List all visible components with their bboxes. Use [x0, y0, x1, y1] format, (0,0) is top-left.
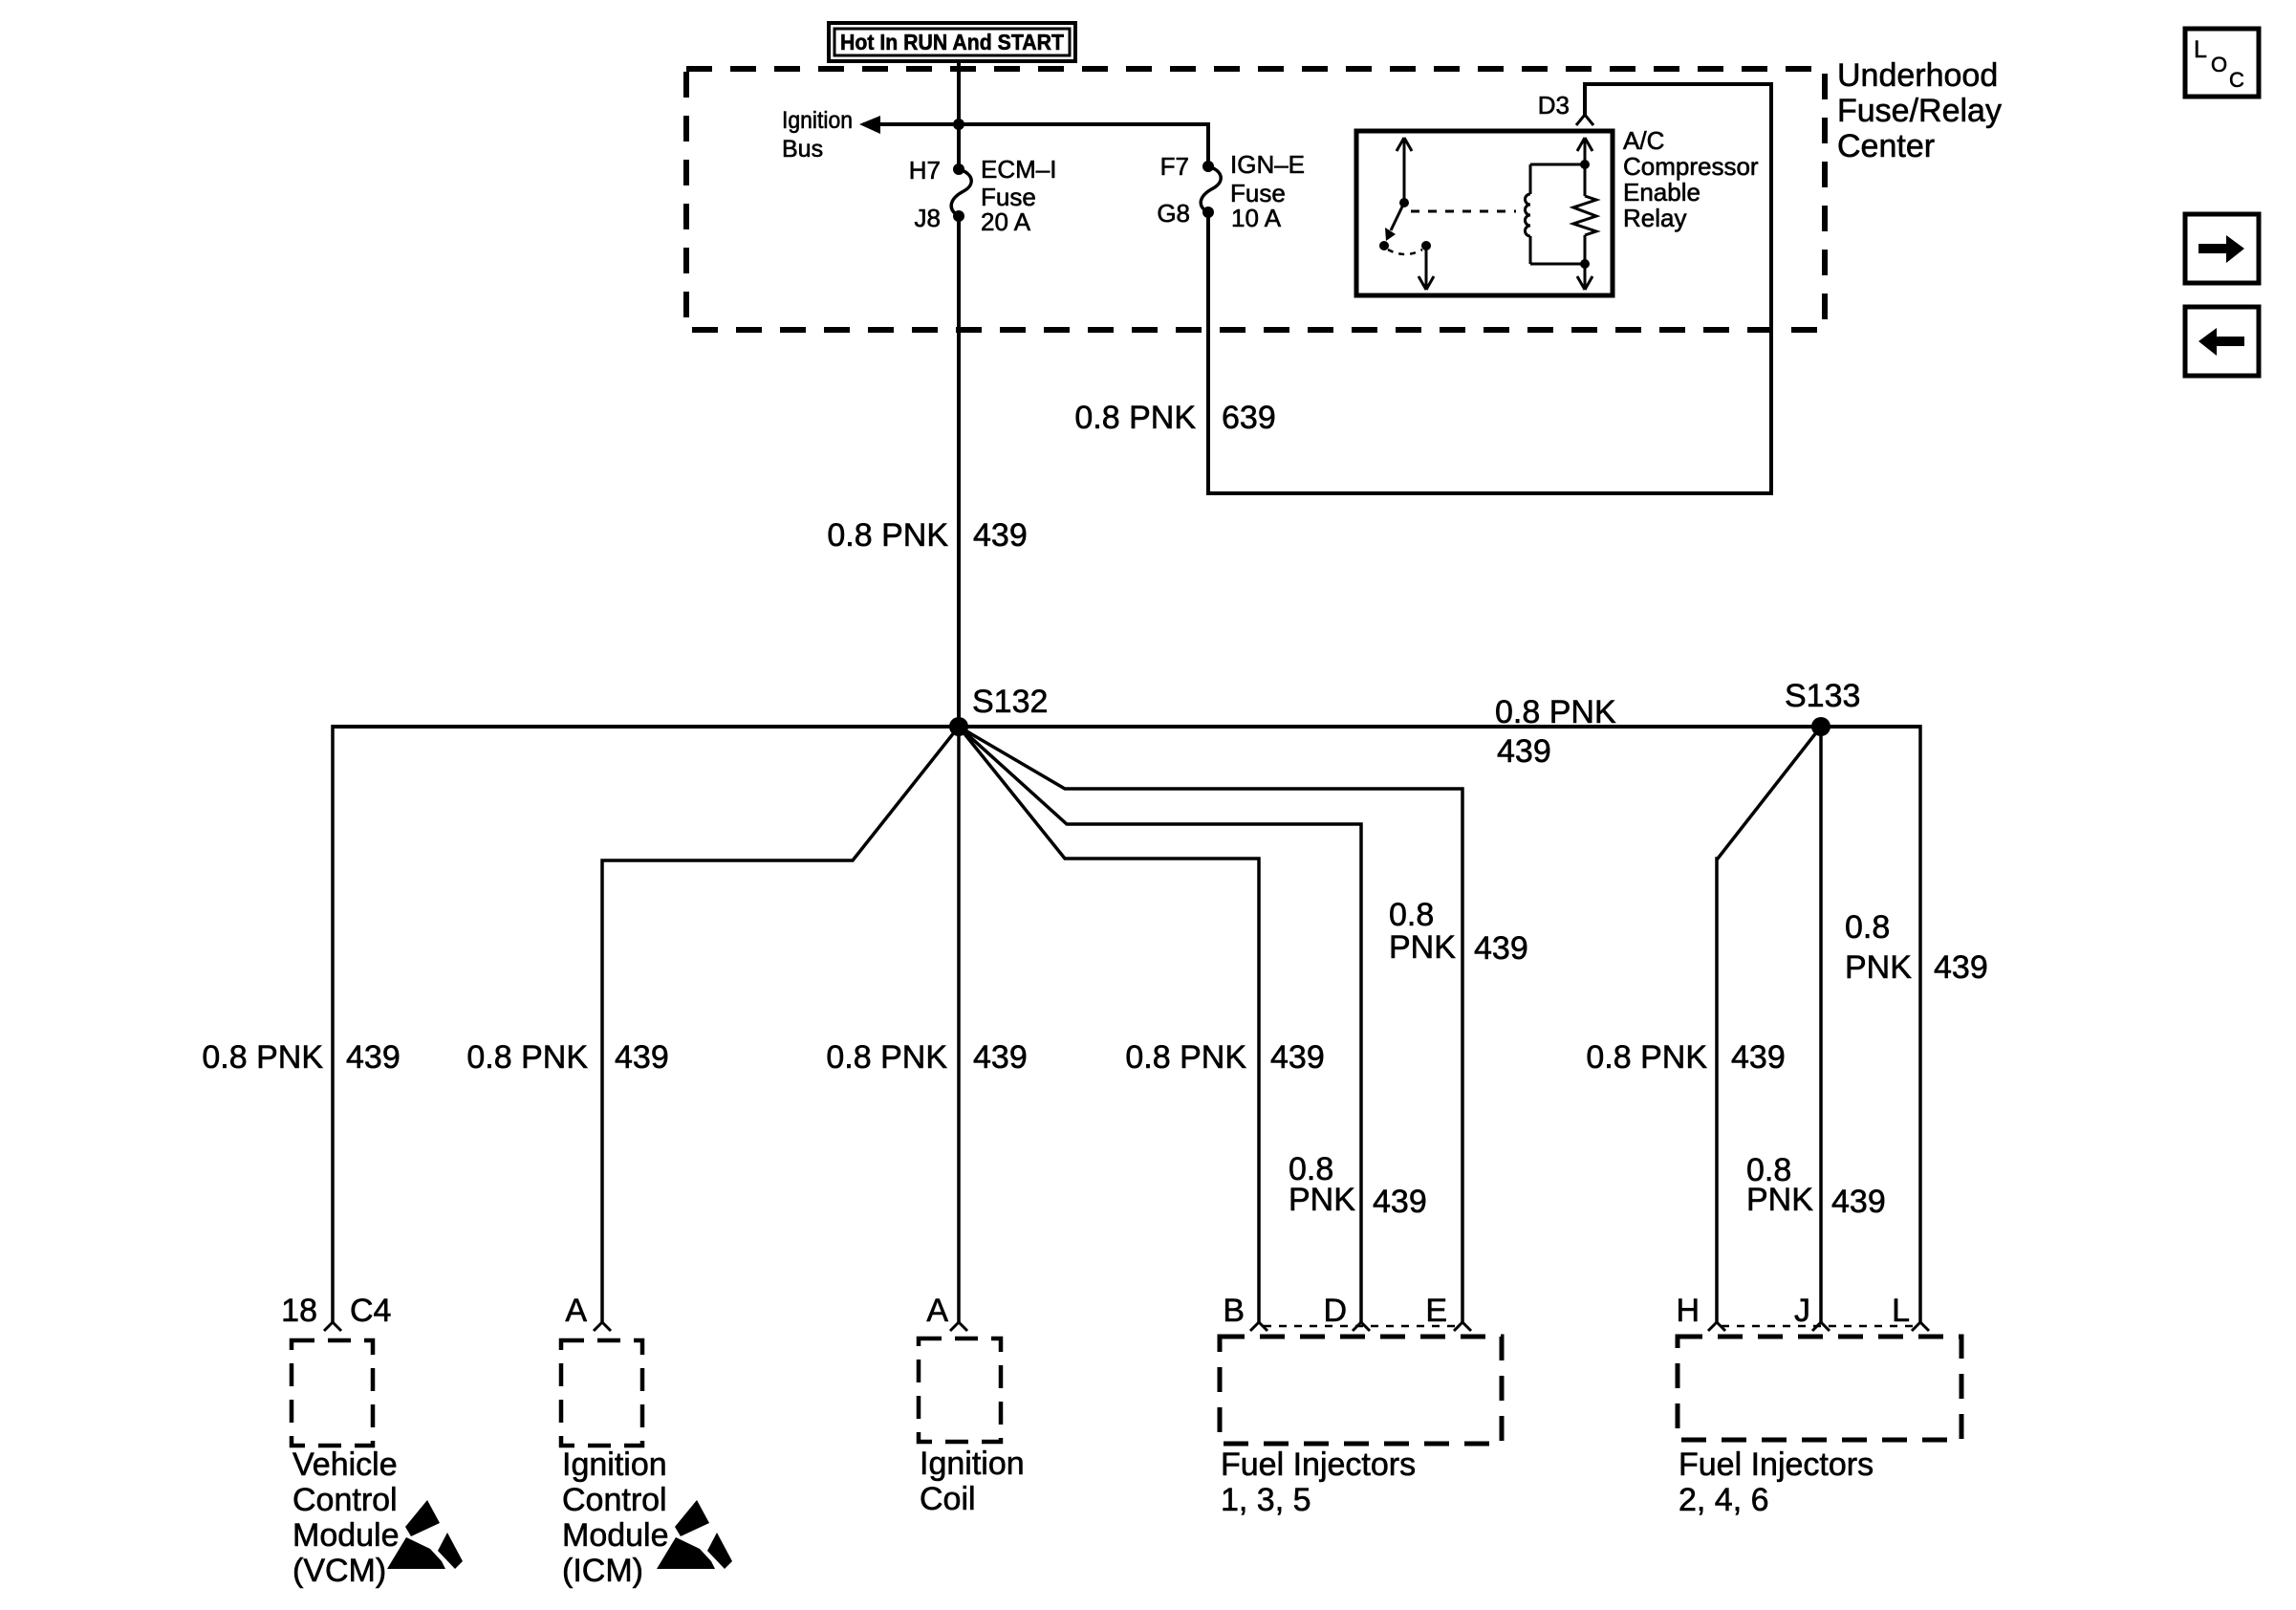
label 0.8 PNK 439 (injector B): [1125, 1039, 1324, 1076]
wire: hot feed from box down to ignition bus junction: [957, 61, 961, 169]
svg-text:F7: F7: [1160, 152, 1189, 181]
node S132 splice: [949, 717, 968, 736]
svg-text:Ignition: Ignition: [562, 1447, 667, 1483]
pin 18 C4 (VCM): [281, 1293, 391, 1329]
relay coil: [1526, 164, 1586, 264]
pin J8: [953, 210, 964, 222]
svg-text:S132: S132: [972, 684, 1048, 720]
svg-text:1, 3, 5: 1, 3, 5: [1221, 1482, 1311, 1518]
relay NO contact output arrow (down): [1419, 246, 1434, 290]
svg-text:E: E: [1425, 1293, 1447, 1329]
terminal chevron VCM: [324, 1322, 341, 1331]
svg-text:O: O: [2211, 53, 2227, 76]
svg-text:0.8: 0.8: [1389, 897, 1434, 933]
component box Fuel Injectors 1,3,5 dashed: [1220, 1337, 1502, 1444]
connector dashed link H-J-L: [1722, 1325, 1917, 1328]
svg-text:(VCM): (VCM): [292, 1553, 386, 1589]
label 0.8 PNK 439 (injector J): [1746, 1152, 1886, 1220]
svg-text:Control: Control: [562, 1482, 667, 1518]
label Ignition Coil: [920, 1446, 1025, 1517]
label 0.8 PNK 439 (coil): [826, 1039, 1027, 1076]
svg-text:0.8 PNK: 0.8 PNK: [1586, 1039, 1707, 1076]
Underhood Fuse/Relay Center dashed box: [686, 69, 1825, 330]
fuse ECM-I squiggle: [951, 169, 971, 216]
pin H7: [953, 163, 964, 175]
connector dashed link B-D-E: [1264, 1325, 1459, 1328]
svg-text:A/C: A/C: [1623, 126, 1664, 155]
wire: injector E branch from S132: [959, 727, 1462, 1322]
svg-text:Bus: Bus: [782, 136, 823, 163]
terminal chevron L: [1912, 1322, 1929, 1331]
ESD symbol (ICM): [657, 1500, 732, 1569]
svg-text:20 A: 20 A: [981, 207, 1031, 236]
svg-text:PNK: PNK: [1289, 1182, 1355, 1218]
svg-text:439: 439: [973, 517, 1028, 554]
svg-text:Ignition: Ignition: [920, 1446, 1025, 1482]
svg-text:0.8 PNK: 0.8 PNK: [826, 1039, 947, 1076]
svg-text:J8: J8: [915, 204, 941, 232]
svg-text:Ignition: Ignition: [782, 107, 853, 134]
label Vehicle Control Module (VCM): [292, 1447, 400, 1589]
wire: main bus from S132 left to VCM corner: [333, 725, 959, 729]
module box ignition coil dashed: [919, 1338, 1001, 1442]
power source box Hot In RUN And START: [829, 23, 1075, 61]
node S133 splice: [1811, 717, 1830, 736]
svg-text:439: 439: [1934, 949, 1988, 986]
svg-text:Fuel Injectors: Fuel Injectors: [1679, 1447, 1874, 1483]
terminal chevron E: [1454, 1322, 1471, 1331]
svg-text:L: L: [2194, 36, 2207, 63]
svg-text:H: H: [1676, 1293, 1700, 1329]
pin D3 connector chevron: [1538, 91, 1593, 125]
wire: injector D branch from S132: [959, 727, 1361, 1322]
svg-text:PNK: PNK: [1845, 949, 1912, 986]
label 0.8 PNK 439 (injector H): [1586, 1039, 1785, 1076]
legend left-arrow box: [2185, 307, 2259, 376]
svg-text:2, 4, 6: 2, 4, 6: [1679, 1482, 1769, 1518]
svg-text:439: 439: [1831, 1184, 1886, 1220]
svg-text:IGN–E: IGN–E: [1230, 150, 1305, 179]
svg-text:G8: G8: [1157, 199, 1190, 228]
terminal chevron J: [1812, 1322, 1830, 1331]
svg-text:439: 439: [973, 1039, 1028, 1076]
relay switch blade with arrowhead: [1385, 203, 1404, 241]
svg-text:S133: S133: [1785, 678, 1860, 714]
svg-text:D: D: [1323, 1293, 1347, 1329]
svg-text:439: 439: [1373, 1184, 1427, 1220]
label A/C Compressor Enable Relay: [1623, 126, 1759, 232]
svg-text:0.8 PNK: 0.8 PNK: [1495, 694, 1616, 730]
relay actuation dashed line: [1411, 210, 1516, 213]
svg-text:D3: D3: [1538, 91, 1570, 120]
svg-text:439: 439: [1497, 733, 1551, 770]
svg-text:H7: H7: [909, 156, 941, 185]
label Fuel Injectors 1, 3, 5: [1221, 1447, 1416, 1518]
label Fuel Injectors 2, 4, 6: [1679, 1447, 1874, 1518]
terminal chevron ICM: [594, 1322, 611, 1331]
svg-text:439: 439: [615, 1039, 669, 1076]
svg-text:Fuel Injectors: Fuel Injectors: [1221, 1447, 1416, 1483]
svg-text:10 A: 10 A: [1231, 204, 1282, 232]
svg-text:0.8 PNK: 0.8 PNK: [1074, 400, 1196, 436]
terminal chevron coil: [950, 1322, 967, 1331]
svg-text:Module: Module: [562, 1517, 669, 1554]
svg-text:Enable: Enable: [1623, 178, 1700, 207]
label 0.8 PNK 439 (injector L): [1845, 909, 1988, 986]
pin G8: [1202, 207, 1214, 218]
svg-text:439: 439: [1474, 930, 1528, 967]
svg-text:B: B: [1223, 1293, 1245, 1329]
svg-text:Center: Center: [1837, 128, 1935, 164]
node: relay coil top junction: [1580, 160, 1590, 169]
svg-text:Hot In RUN And START: Hot In RUN And START: [840, 30, 1064, 54]
svg-text:Vehicle: Vehicle: [292, 1447, 398, 1483]
svg-text:Compressor: Compressor: [1623, 152, 1759, 181]
svg-text:PNK: PNK: [1746, 1182, 1813, 1218]
wire: ignition coil drop from S132: [957, 727, 961, 1322]
wire: circuit 639 loop from G8 to relay D3: [1208, 84, 1771, 493]
ESD symbol (VCM): [387, 1500, 463, 1569]
relay box A/C Compressor Enable Relay: [1356, 131, 1613, 295]
svg-text:Coil: Coil: [920, 1481, 976, 1517]
label 0.8 PNK 439 (VCM): [202, 1039, 400, 1076]
wire: IGN-E branch down from ignition bus: [1206, 122, 1210, 166]
svg-text:J: J: [1794, 1293, 1810, 1329]
svg-text:0.8 PNK: 0.8 PNK: [1125, 1039, 1246, 1076]
label 0.8 PNK 439 (injector E): [1389, 897, 1528, 967]
wire: injector J drop from S133: [1819, 727, 1823, 1322]
wire: ignition bus horizontal: [863, 122, 1208, 126]
label 0.8 PNK 439 (bus to S133): [1495, 694, 1616, 770]
relay switch common arrow (up): [1397, 138, 1412, 203]
relay feed arrow (up) at D3 leg: [1577, 138, 1592, 196]
label 0.8 PNK 639: [1074, 400, 1275, 436]
wire: ICM branch from S132: [602, 727, 959, 1322]
svg-text:439: 439: [1270, 1039, 1325, 1076]
svg-text:C: C: [2229, 68, 2244, 92]
wire: circuit 439 main feed J8 down to S132: [957, 216, 961, 727]
svg-text:439: 439: [346, 1039, 401, 1076]
label 0.8 PNK 439 (ICM): [466, 1039, 668, 1076]
relay output arrow (down): [1577, 235, 1592, 290]
svg-text:0.8 PNK: 0.8 PNK: [827, 517, 948, 554]
terminal chevron H: [1708, 1322, 1725, 1331]
svg-text:0.8 PNK: 0.8 PNK: [466, 1039, 588, 1076]
svg-text:L: L: [1892, 1293, 1910, 1329]
fuse IGN-E squiggle: [1201, 166, 1221, 212]
relay dashed contact arc: [1388, 250, 1422, 254]
terminal chevron B: [1250, 1322, 1267, 1331]
module box ICM dashed: [561, 1340, 642, 1446]
svg-text:18: 18: [281, 1293, 317, 1329]
svg-text:ECM–I: ECM–I: [981, 155, 1056, 184]
label 0.8 PNK 439 (main feed): [827, 517, 1027, 554]
svg-text:0.8: 0.8: [1845, 909, 1890, 946]
svg-text:PNK: PNK: [1389, 929, 1456, 966]
label IGN-E Fuse 10 A: [1230, 150, 1305, 232]
terminal chevron D: [1353, 1322, 1370, 1331]
label Ignition Control Module (ICM): [562, 1447, 669, 1589]
node: relay coil bottom junction: [1580, 259, 1590, 269]
module box VCM dashed: [292, 1340, 373, 1446]
relay NO contact: [1421, 241, 1431, 250]
svg-text:C4: C4: [350, 1293, 391, 1329]
label 0.8 PNK 439 (injector D): [1289, 1151, 1427, 1220]
pin F7: [1202, 161, 1214, 172]
svg-text:639: 639: [1222, 400, 1276, 436]
legend LOC box: [2185, 29, 2259, 97]
svg-text:Underhood: Underhood: [1837, 57, 1998, 94]
svg-text:(ICM): (ICM): [562, 1553, 643, 1589]
node: ignition bus junction: [953, 119, 964, 130]
relay NC contact: [1379, 241, 1389, 250]
wire: injector B branch from S132: [959, 727, 1259, 1322]
svg-text:Relay: Relay: [1623, 204, 1686, 232]
relay switch pivot: [1399, 198, 1409, 207]
wire: main bus from S132 right to L corner: [959, 725, 1920, 729]
arrow to Ignition Bus: [859, 116, 880, 134]
svg-text:Fuse/Relay: Fuse/Relay: [1837, 93, 2002, 129]
svg-text:A: A: [926, 1293, 948, 1329]
wire: injector H branch from S133: [1717, 727, 1821, 1322]
label ECM-I Fuse 20 A: [981, 155, 1056, 236]
label Ignition Bus: [782, 107, 853, 163]
svg-text:Control: Control: [292, 1482, 398, 1518]
wire: VCM drop: [331, 725, 335, 1322]
svg-text:439: 439: [1731, 1039, 1786, 1076]
label Underhood Fuse/Relay Center: [1837, 57, 2002, 164]
svg-text:0.8 PNK: 0.8 PNK: [202, 1039, 323, 1076]
svg-text:Module: Module: [292, 1517, 400, 1554]
legend right-arrow box: [2185, 214, 2259, 283]
relay resistor zigzag: [1573, 196, 1596, 235]
wire: injector L drop: [1918, 725, 1922, 1322]
component box Fuel Injectors 2,4,6 dashed: [1678, 1337, 1961, 1440]
svg-text:A: A: [565, 1293, 587, 1329]
